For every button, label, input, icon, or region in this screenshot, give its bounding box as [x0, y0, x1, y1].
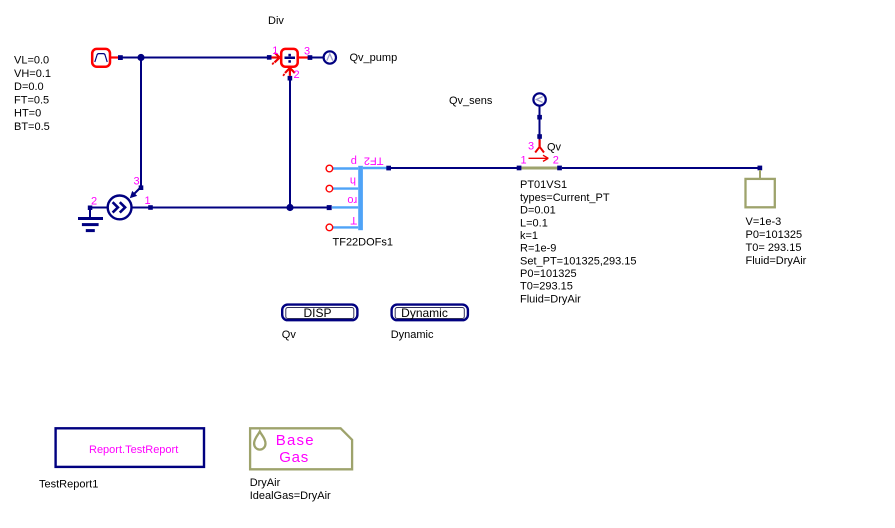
base gas text [276, 432, 315, 466]
TF2 pin T open circle [326, 224, 333, 231]
divider pin 2 arrow [283, 68, 295, 76]
svg-text:types=Current_PT: types=Current_PT [520, 192, 610, 204]
source Q (double chevron) [108, 196, 132, 220]
svg-text:D=0.0: D=0.0 [14, 81, 44, 93]
wire source pin1 to TF2 [132, 207, 330, 209]
junction node bottom [286, 204, 293, 211]
svg-text:D=0.01: D=0.01 [520, 205, 556, 217]
divider pin 3 square [308, 55, 313, 60]
svg-text:L=0.1: L=0.1 [520, 217, 548, 229]
svg-text:R=1e-9: R=1e-9 [520, 243, 556, 255]
junction node top [137, 54, 144, 61]
base gas labels [250, 477, 331, 502]
pulse output pin [118, 55, 123, 60]
svg-text:2: 2 [294, 69, 300, 81]
svg-text:k=1: k=1 [520, 230, 538, 242]
svg-text:Qv_pump: Qv_pump [350, 52, 398, 64]
wire junction down to source [140, 58, 142, 188]
svg-text:T0=293.15: T0=293.15 [520, 281, 573, 293]
svg-text:HT=0: HT=0 [14, 107, 41, 119]
svg-text:1: 1 [145, 195, 151, 207]
svg-text:VL=0.0: VL=0.0 [14, 55, 49, 67]
TF2 pin p open circle [326, 165, 333, 172]
svg-text:Dynamic: Dynamic [391, 329, 434, 341]
wire sensor pin2 to volume [562, 167, 759, 169]
divider pin 1 square [267, 55, 272, 60]
svg-text:1: 1 [521, 155, 527, 167]
svg-text:VH=0.1: VH=0.1 [14, 68, 51, 80]
wire source pin 2 to ground [90, 207, 108, 209]
wire TF2 to sensor pin1 [391, 167, 519, 169]
svg-text:FT=0.5: FT=0.5 [14, 94, 49, 106]
svg-text:DryAir: DryAir [250, 477, 281, 489]
svg-text:DISP: DISP [303, 306, 331, 320]
svg-text:Fluid=DryAir: Fluid=DryAir [520, 293, 581, 305]
svg-text:Report.TestReport: Report.TestReport [89, 444, 178, 456]
source pin 3 square [139, 185, 144, 190]
sensor wire pin square lower [537, 134, 542, 139]
svg-text:Fluid=DryAir: Fluid=DryAir [746, 255, 807, 267]
volume pin square [758, 166, 763, 171]
TF2 pin h open circle [326, 185, 333, 192]
report block Report.TestReport [56, 428, 204, 467]
sensor pin 1 square [517, 166, 522, 171]
sensor direction arrow [529, 155, 549, 161]
svg-text:Qv: Qv [547, 142, 562, 154]
svg-text:1: 1 [272, 45, 278, 57]
svg-text:P0=101325: P0=101325 [520, 268, 577, 280]
sensor wire pin square upper [537, 115, 542, 120]
divider pin 1 arrow [272, 53, 280, 65]
wire divider pin2 down to junction [289, 78, 291, 208]
svg-text:TF22DOFs1: TF22DOFs1 [333, 236, 394, 248]
ground [78, 210, 103, 232]
transfer element TF22DOFs1 [332, 166, 388, 230]
node Qv_sens circle [533, 93, 545, 105]
svg-text:IdealGas=DryAir: IdealGas=DryAir [250, 490, 331, 502]
wire Qv_sens down to sensor pin3 [539, 106, 541, 141]
divider pin 2 square [288, 76, 293, 81]
divider Div [281, 49, 298, 67]
divider pin 3 red stub [299, 56, 308, 58]
svg-text:V=1e-3: V=1e-3 [746, 216, 782, 228]
sensor PT01VS1 body [521, 167, 558, 170]
volume parameters [746, 216, 807, 267]
sensor pin 3 fork symbol [535, 140, 544, 153]
node Qv_pump [324, 51, 336, 63]
svg-text:Gas: Gas [279, 449, 309, 466]
svg-text:h: h [350, 175, 356, 187]
TF2 output pin square [386, 166, 391, 171]
svg-text:PT01VS1: PT01VS1 [520, 179, 567, 191]
svg-text:TF2: TF2 [364, 154, 384, 166]
svg-text:3: 3 [528, 141, 534, 153]
Dynamic block [392, 305, 468, 321]
svg-text:Dynamic: Dynamic [401, 306, 448, 320]
svg-text:3: 3 [134, 176, 140, 188]
svg-text:TestReport1: TestReport1 [39, 479, 98, 491]
svg-text:Div: Div [268, 15, 284, 27]
svg-text:p: p [351, 155, 357, 167]
DISP block [282, 305, 357, 321]
sensor pin 2 square [557, 166, 562, 171]
svg-text:P0=101325: P0=101325 [746, 229, 803, 241]
svg-text:Qv_sens: Qv_sens [449, 95, 493, 107]
svg-text:ro: ro [347, 194, 357, 206]
TF2 pin ro square [327, 205, 332, 210]
pulse source [92, 49, 118, 67]
base gas block [250, 428, 352, 469]
ground pin square [88, 206, 93, 211]
svg-text:T: T [350, 214, 357, 226]
sensor parameters PT01VS1 [520, 179, 637, 305]
volume V1 [746, 170, 775, 207]
wire pulse to divider [122, 57, 268, 59]
svg-text:T0= 293.15: T0= 293.15 [746, 242, 802, 254]
svg-text:BT=0.5: BT=0.5 [14, 121, 50, 133]
source pin 3 arrow [130, 188, 140, 198]
pulse source parameters VL..BT [14, 55, 51, 133]
svg-text:Set_PT=101325,293.15: Set_PT=101325,293.15 [520, 255, 637, 267]
svg-text:Base: Base [276, 432, 315, 449]
svg-text:Qv: Qv [282, 329, 297, 341]
svg-text:2: 2 [553, 155, 559, 167]
wire divider to Qv_pump [312, 57, 324, 59]
source pin 1 square [148, 205, 153, 210]
